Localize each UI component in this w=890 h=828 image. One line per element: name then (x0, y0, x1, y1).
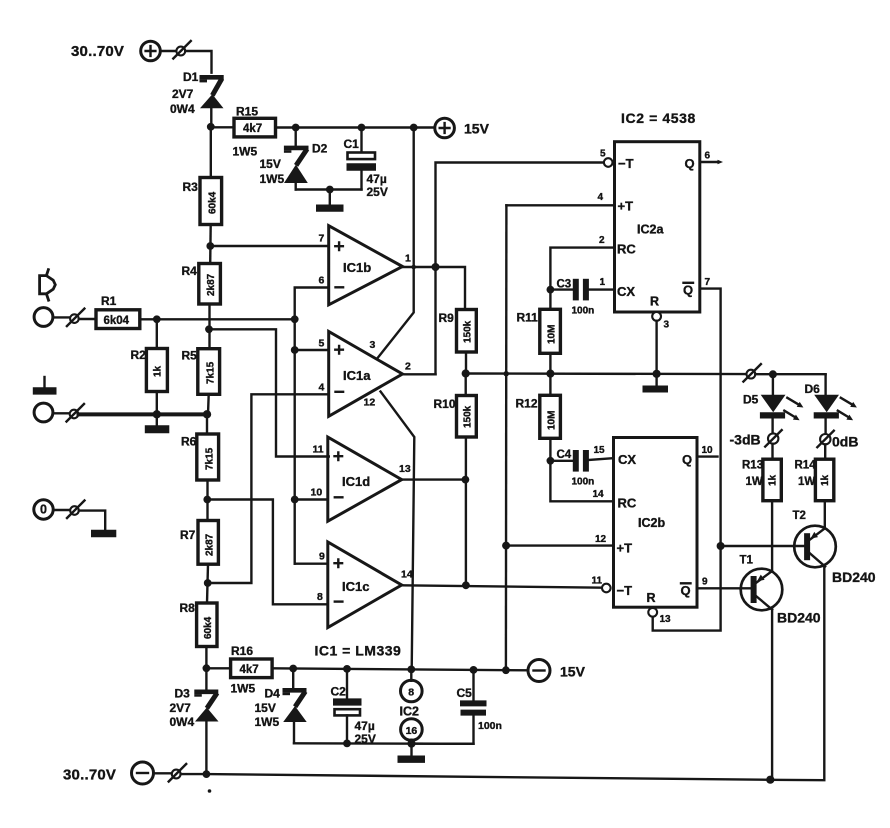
svg-text:CX: CX (618, 452, 636, 467)
svg-text:+T: +T (618, 199, 634, 214)
svg-text:R10: R10 (434, 397, 456, 411)
wire R7 to R8 (207, 564, 208, 603)
pin 7 label (705, 277, 711, 288)
wire connector to R1 (79, 318, 96, 320)
junction rail IC2 pin8 (407, 666, 415, 674)
terminal +15V (435, 118, 455, 138)
svg-text:R14: R14 (795, 460, 817, 472)
resistor R11 (540, 290, 561, 374)
svg-text:15V: 15V (260, 157, 281, 171)
junction rail C2 (343, 665, 351, 673)
svg-text:14: 14 (401, 569, 413, 581)
label T2 BD240 (832, 569, 876, 585)
label R16 (231, 644, 253, 658)
pin 15 label (594, 445, 606, 456)
svg-text:5: 5 (600, 149, 606, 160)
wire IC1c pin9 from signal (295, 563, 328, 565)
junction thick wire R2 (153, 410, 161, 418)
svg-text:1W5: 1W5 (260, 172, 285, 186)
IC1a V+ lead pin3 (378, 128, 414, 358)
wire tap2 to IC1d pin11 (209, 329, 329, 456)
svg-text:D1: D1 (183, 70, 199, 84)
junction blob +T column bus crossing (504, 371, 509, 376)
wire IC1b output (403, 267, 466, 310)
wire signal distribution vertical (295, 288, 329, 564)
svg-text:C5: C5 (457, 686, 473, 700)
svg-text:1k: 1k (153, 365, 164, 377)
svg-text:D2: D2 (312, 142, 328, 156)
junction rail +T column (502, 666, 510, 674)
LED D5 arrows (784, 398, 803, 420)
label R15 (236, 105, 258, 119)
pin 7 label (319, 233, 325, 245)
wire R1 to signal column (140, 318, 295, 320)
capacitor C1 (347, 128, 377, 190)
svg-text:R: R (650, 295, 659, 309)
terminal 0 (34, 500, 53, 519)
label D1 value 0W4 (170, 102, 195, 116)
svg-text:R1: R1 (101, 294, 117, 308)
pin 13 label (399, 463, 411, 475)
Q output pin6 stub (700, 160, 723, 164)
junction outputs 1+2 (432, 263, 440, 271)
wire wired-or outputs to IC2a -T (436, 163, 604, 375)
wire C4 junction to RC pin14 (550, 461, 613, 502)
svg-text:1W5: 1W5 (231, 682, 256, 696)
junction tap R7 R8 (204, 579, 212, 587)
wire R14 to T2 emitter (824, 501, 826, 528)
svg-text:1: 1 (600, 277, 606, 288)
svg-text:13: 13 (660, 614, 672, 625)
svg-text:RC: RC (618, 496, 637, 511)
wire IC1c output to IC2b -T (402, 585, 602, 587)
resistor R2 (146, 319, 167, 414)
label D3 value 0W4 (170, 715, 195, 729)
svg-text:C3: C3 (557, 279, 572, 291)
svg-text:13: 13 (399, 463, 411, 475)
label D2 value 15V (260, 157, 281, 171)
op-amp IC1a (329, 332, 403, 417)
wire R9 to bus (465, 352, 467, 374)
junction C2 bottom (343, 740, 351, 748)
pin 4 label (598, 192, 604, 203)
zener diode D1 (200, 75, 224, 127)
pin 14 label (593, 489, 605, 500)
label C3 (557, 279, 572, 291)
label R14 (795, 460, 817, 472)
svg-text:R3: R3 (183, 180, 199, 194)
transistor T1 (741, 569, 783, 780)
svg-text:1: 1 (405, 253, 411, 265)
svg-text:2k87: 2k87 (206, 273, 217, 296)
svg-text:8: 8 (317, 591, 323, 603)
label R13 power 1W (746, 476, 763, 488)
pin 9 label (319, 551, 325, 563)
wire R13 to T1 emitter (771, 501, 773, 570)
junction rail D4 (289, 665, 297, 673)
node 30..70V plus label (71, 43, 124, 60)
label R1 (101, 294, 117, 308)
svg-text:9: 9 (319, 551, 325, 563)
resistor R12 (540, 374, 561, 461)
wire Qbar pin7 to T2 base and IC2b reset (653, 289, 721, 631)
junction rail IC1a V+ lead (410, 124, 418, 132)
junction D3 bottom rail (203, 770, 211, 778)
junction rail C5 (470, 666, 478, 674)
svg-text:11: 11 (592, 576, 603, 587)
label T2 (793, 510, 806, 522)
pin 5 label (319, 338, 325, 350)
pin 11 label (313, 444, 324, 456)
label R7 (180, 528, 196, 542)
resistor R1 (96, 310, 140, 329)
svg-text:30..70V: 30..70V (71, 43, 124, 60)
resistor R7 (198, 521, 218, 565)
junction tap R4 R5 (205, 325, 213, 333)
svg-text:R: R (647, 591, 656, 605)
junction IC2 pin16 ground (407, 740, 415, 748)
junction output node crossing (411, 265, 416, 270)
label D6 (805, 382, 821, 396)
svg-text:2: 2 (599, 235, 605, 246)
svg-text:4k7: 4k7 (240, 664, 259, 676)
Q output pin10 stub (697, 455, 718, 457)
resistor R10 (457, 374, 477, 586)
svg-text:BD240: BD240 (777, 610, 821, 626)
svg-text:60k4: 60k4 (203, 616, 214, 639)
svg-text:R7: R7 (180, 528, 196, 542)
pin 13 label (660, 614, 672, 625)
svg-text:10M: 10M (547, 411, 558, 430)
svg-text:25V: 25V (355, 732, 376, 746)
ground symbol 0 input (91, 530, 116, 537)
label C5 value 100n (478, 720, 502, 732)
label 15V top (464, 121, 490, 137)
wire rail to T2 collector (770, 567, 824, 780)
wire IC1d output (402, 478, 465, 480)
wire terminal to connector bottom (154, 772, 172, 774)
junction bus reset ground (653, 370, 661, 378)
label IC1 = LM339 (315, 643, 402, 659)
svg-text:12: 12 (364, 397, 376, 409)
wire IC1d pin10 from signal (295, 498, 328, 500)
svg-text:CX: CX (617, 284, 635, 299)
junction R9 R10 bus (462, 369, 470, 377)
wire Qbar pin9 to T1 base (697, 587, 751, 589)
junction D5 anode (769, 370, 777, 378)
label R2 (131, 348, 147, 362)
zener diode D4 (283, 669, 307, 744)
svg-text:BD240: BD240 (832, 569, 876, 585)
svg-text:4k7: 4k7 (243, 123, 262, 135)
label R3 (183, 180, 199, 194)
svg-text:7: 7 (319, 233, 325, 245)
svg-text:4: 4 (598, 192, 604, 203)
ground symbol bus (643, 374, 669, 393)
junction Qbar7 T2 base (717, 542, 725, 550)
label 15V bottom (560, 664, 586, 680)
label 30..70V minus (63, 767, 116, 784)
svg-text:D5: D5 (743, 393, 759, 407)
wire junction to R15 (211, 126, 234, 128)
svg-text:0W4: 0W4 (170, 715, 195, 729)
svg-text:3: 3 (370, 339, 376, 351)
resistor R3 (200, 178, 222, 225)
junction tap R6 R7 (203, 496, 211, 504)
junction +T12 (502, 542, 510, 550)
svg-text:30..70V: 30..70V (63, 767, 116, 784)
junction IC1c output (462, 581, 470, 589)
svg-text:IC2: IC2 (400, 705, 420, 719)
svg-text:D3: D3 (175, 687, 191, 701)
LED D6 (814, 375, 839, 435)
label R9 (439, 311, 455, 325)
svg-text:IC1d: IC1d (342, 474, 370, 489)
monostable IC2a (615, 142, 700, 312)
junction thick wire divider center (203, 410, 211, 418)
pin 2 label (405, 361, 411, 373)
svg-text:10M: 10M (547, 325, 558, 344)
svg-text:2V7: 2V7 (172, 87, 194, 101)
wire center to R6 (206, 414, 208, 434)
svg-text:2V7: 2V7 (170, 701, 192, 715)
connector 0dB (817, 431, 834, 448)
pin 8 label (317, 591, 323, 603)
connector top input (173, 41, 191, 59)
svg-text:6: 6 (705, 151, 711, 162)
junction bus R11 (546, 370, 554, 378)
svg-text:7k15: 7k15 (206, 361, 217, 384)
ground symbol IC2 (398, 744, 426, 763)
pin 5 label (600, 149, 606, 160)
svg-text:15V: 15V (464, 121, 490, 137)
svg-text:47µ: 47µ (367, 172, 387, 186)
svg-text:T1: T1 (740, 555, 754, 567)
svg-text:−T: −T (618, 156, 634, 171)
label R8 (180, 601, 196, 615)
wire reset pin3 to ground bus (655, 321, 657, 374)
label D5 (743, 393, 759, 407)
capacitor C4 (550, 450, 613, 472)
input tag symbol (40, 268, 56, 301)
reset bubble pin13 (648, 608, 657, 617)
svg-text:D4: D4 (265, 687, 281, 701)
speck artifact (208, 789, 212, 793)
label R15 power 1W5 (233, 145, 258, 159)
terminal - 30..70V (132, 762, 154, 784)
label R16 power 1W5 (231, 682, 256, 696)
label IC2 (400, 705, 420, 719)
svg-text:16: 16 (406, 725, 418, 737)
junction C3 R11 (547, 286, 555, 294)
svg-text:Q: Q (683, 283, 693, 298)
label T1 (740, 555, 754, 567)
svg-text:C1: C1 (344, 137, 360, 151)
terminal + 30..70V (141, 41, 161, 61)
wire +T common vertical (505, 205, 508, 670)
svg-text:IC2 = 4538: IC2 = 4538 (621, 110, 696, 126)
svg-text:2k87: 2k87 (205, 533, 216, 556)
svg-text:3: 3 (664, 320, 670, 331)
input terminal lower (34, 403, 53, 422)
capacitor C3 (550, 279, 614, 301)
svg-text:60k4: 60k4 (208, 191, 219, 214)
svg-text:Q: Q (685, 156, 695, 171)
label R11 (517, 311, 539, 325)
inverting bubble -T pin11 (602, 584, 611, 593)
wire connector to R13 (771, 444, 773, 459)
zener diode D3 (194, 668, 218, 774)
svg-text:RC: RC (617, 242, 636, 257)
svg-text:12: 12 (595, 534, 607, 545)
wire D1 junction down to R3 (210, 127, 212, 178)
svg-text:R16: R16 (231, 644, 253, 658)
label D4 value 15V (255, 701, 276, 715)
label 0dB (832, 434, 858, 450)
zener diode D2 (284, 128, 309, 190)
svg-text:11: 11 (313, 444, 324, 456)
svg-text:4: 4 (319, 382, 325, 394)
wire R5 to center (207, 394, 210, 414)
wire tap1 to IC1b pin7 (210, 245, 328, 247)
wire IC1a pin5 from signal (295, 349, 329, 351)
reset bubble pin3 (652, 312, 661, 321)
wire junction to R16 (206, 667, 230, 669)
svg-text:R13: R13 (742, 460, 763, 472)
svg-text:C2: C2 (331, 685, 347, 699)
resistor R9 (457, 310, 477, 353)
wire R3 to R4 (209, 225, 212, 264)
resistor R4 (199, 264, 221, 305)
IC2 pin 8 circle (401, 669, 423, 701)
label R6 (181, 435, 197, 449)
label C1 (344, 137, 360, 151)
capacitor C2 (333, 669, 362, 744)
label R10 (434, 397, 456, 411)
wire +15V rail (276, 126, 435, 128)
transistor T2 (794, 526, 836, 568)
pin 2 label (599, 235, 605, 246)
svg-text:R2: R2 (131, 348, 147, 362)
wire connector to D1 (185, 51, 211, 73)
wire IC1a output up (403, 373, 436, 375)
junction tap R3 R4 (206, 242, 214, 250)
svg-text:R12: R12 (516, 397, 538, 411)
pin 14 label (401, 569, 413, 581)
svg-text:0dB: 0dB (832, 434, 858, 450)
chassis ground mark (33, 377, 57, 395)
label C1 value 47u (367, 172, 387, 186)
label R5 (182, 349, 198, 363)
junction signal node (291, 315, 299, 323)
svg-text:150k: 150k (463, 405, 474, 428)
svg-text:8: 8 (408, 687, 414, 699)
label D1 value 2V7 (172, 87, 194, 101)
svg-text:150k: 150k (463, 320, 474, 343)
pin 12 label (364, 397, 376, 409)
label C5 (457, 686, 473, 700)
label IC2 = 4538 (621, 110, 696, 126)
svg-text:47µ: 47µ (355, 719, 375, 733)
svg-text:1W: 1W (798, 476, 815, 488)
svg-text:0: 0 (40, 503, 47, 517)
svg-text:IC2a: IC2a (637, 223, 664, 237)
wire +T pin12 (506, 544, 613, 546)
wire lower input to connector (53, 412, 70, 414)
ground symbol top (316, 190, 344, 212)
pin 10 label (311, 487, 323, 499)
svg-text:1k: 1k (820, 474, 831, 486)
wire input to connector (53, 316, 70, 318)
svg-text:R15: R15 (236, 105, 258, 119)
svg-text:+T: +T (617, 541, 633, 556)
svg-text:15: 15 (594, 445, 606, 456)
label D2 value 1W5 (260, 172, 285, 186)
resistor R13 (763, 459, 781, 501)
svg-text:10: 10 (702, 445, 714, 456)
wire -15V rail (272, 668, 527, 670)
label C2 value 25V (355, 732, 376, 746)
label D2 (312, 142, 328, 156)
svg-text:100n: 100n (478, 720, 502, 732)
svg-text:7: 7 (705, 277, 711, 288)
wire D2 anode to ground (296, 188, 362, 190)
junction rail D2 (292, 124, 300, 132)
wire terminal to connector (160, 50, 176, 52)
label D4 value 1W5 (255, 715, 280, 729)
svg-text:−T: −T (617, 583, 633, 598)
svg-text:R8: R8 (180, 601, 196, 615)
svg-text:6k04: 6k04 (104, 315, 130, 327)
capacitor C5 (412, 670, 487, 744)
svg-text:15V: 15V (560, 664, 586, 680)
connector bus to LEDs (743, 364, 761, 382)
resistor R8 (197, 603, 217, 647)
label C3 value 100n (572, 306, 595, 317)
svg-text:1W5: 1W5 (255, 715, 280, 729)
op-amp IC1c (328, 542, 402, 628)
wire ground bus (466, 372, 747, 375)
label C1 value 25V (367, 185, 388, 199)
label D3 (175, 687, 191, 701)
svg-text:IC2b: IC2b (638, 516, 665, 530)
svg-text:R5: R5 (182, 349, 198, 363)
wire R4 to R5 (208, 304, 210, 349)
svg-text:C4: C4 (557, 449, 572, 461)
resistor R16 (231, 659, 273, 678)
wire lower input thick to divider center (79, 412, 208, 416)
connector upper input (67, 309, 85, 327)
label R4 (182, 264, 198, 278)
svg-text:Q: Q (681, 583, 691, 598)
svg-text:R6: R6 (181, 435, 197, 449)
label D3 value 2V7 (170, 701, 192, 715)
svg-text:15V: 15V (255, 701, 276, 715)
svg-text:IC1b: IC1b (343, 260, 371, 275)
svg-text:100n: 100n (572, 306, 595, 317)
wire RC pin2 of IC2a (550, 248, 614, 290)
IC2 pin 16 circle (401, 719, 423, 744)
svg-text:7k15: 7k15 (205, 447, 216, 470)
svg-text:100n: 100n (572, 477, 595, 488)
label C4 (557, 449, 572, 461)
pin 3 label (664, 320, 670, 331)
junction signal pin5 (291, 346, 299, 354)
resistor R5 (198, 349, 220, 395)
junction C4 R12 (547, 457, 555, 465)
label R12 (516, 397, 538, 411)
label T1 BD240 (777, 610, 821, 626)
